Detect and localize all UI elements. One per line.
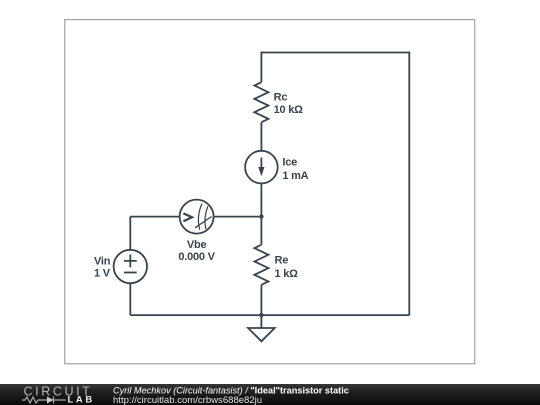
wire node corner to voltmeter [130,216,179,218]
voltmeter VM1 needle icon [183,213,192,221]
wire Vin to bottom rail [129,283,131,315]
svg-text:1 mA: 1 mA [282,170,308,182]
wire Re to bottom rail [260,285,262,315]
Vin plus sign [124,255,137,268]
ground symbol [248,328,275,341]
wire bottom rail [130,314,409,316]
svg-text:1 kΩ: 1 kΩ [275,268,299,280]
svg-text:Vbe: Vbe [187,239,207,251]
wire mid column above Rc [260,52,262,83]
voltmeter VM1 circle [180,200,214,234]
resistor Rc [254,82,268,122]
wire left column top [129,217,131,250]
svg-text:1 V: 1 V [94,268,111,280]
wire top rail [261,52,409,54]
wire right rail [408,52,410,316]
wire Rc to Ice [260,122,262,151]
wire voltmeter to node B [214,216,262,218]
svg-text:Cyril Mechkov (Circuit-fantasi: Cyril Mechkov (Circuit-fantasist) / "Ide… [113,385,349,395]
svg-text:LAB: LAB [68,394,95,405]
svg-text:Re: Re [275,254,289,266]
voltage source Vin circle [114,250,147,283]
logo circuit glyph [22,397,66,404]
svg-text:Vin: Vin [94,256,111,268]
footer bar [0,384,540,405]
svg-text:Ice: Ice [282,157,297,169]
current source Ice circle [245,151,278,184]
svg-text:Rc: Rc [274,91,288,103]
svg-text:http://circuitlab.com/crbws688: http://circuitlab.com/crbws688e82ju [113,395,262,405]
Vin minus sign [124,272,137,274]
node B junction dot [259,214,263,218]
bottom rail junction dot [259,313,263,317]
svg-text:10 kΩ: 10 kΩ [274,104,304,116]
wire Ice to node B [260,183,262,244]
current source Ice arrow [260,158,262,168]
wire to ground [260,315,262,328]
svg-text:0.000 V: 0.000 V [178,251,215,263]
schematic border frame [65,20,475,364]
resistor Re [254,245,268,285]
